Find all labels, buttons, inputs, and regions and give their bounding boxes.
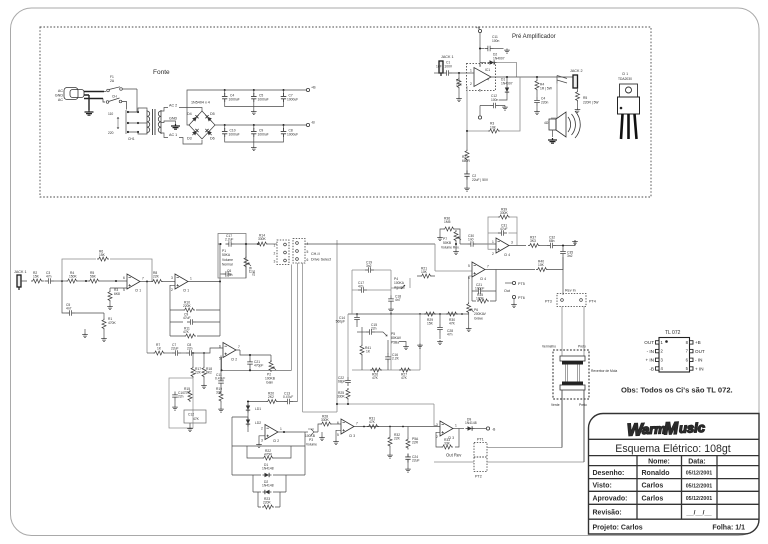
small box C/47K [184,410,206,423]
svg-text:PT2: PT2 [475,475,482,479]
svg-text:3K3: 3K3 [530,239,536,243]
resistor R3 (feedback) [467,86,488,131]
svg-text:7: 7 [356,422,358,426]
svg-text:22n: 22n [178,395,184,399]
pot P1 [244,256,251,268]
tone box wires [352,270,420,370]
wire pin3 ground [259,436,265,443]
junction dots tone [356,313,463,315]
svg-text:3: 3 [261,439,263,443]
svg-text:Visto:: Visto: [593,483,612,490]
resistor R27 [399,368,411,372]
svg-text:CI 1: CI 1 [183,289,189,293]
svg-text:Aprovado:: Aprovado: [593,496,628,503]
svg-text:10K: 10K [421,270,428,274]
capacitor C10 1000uF [224,125,226,129]
capacitor C22 [345,377,351,386]
svg-text:Esquema Elétrico: 108gt: Esquema Elétrico: 108gt [615,443,730,455]
svg-text:22uF: 22uF [171,347,179,351]
transformer core [153,109,156,135]
svg-text:__/__/__: __/__/__ [685,509,712,516]
tank dashed box [553,350,589,399]
svg-text:47K: 47K [449,322,456,326]
resistor R10 [183,308,195,312]
clip loop outer [232,432,305,475]
svg-text:3K2: 3K2 [252,270,256,276]
svg-text:100KA: 100KA [394,281,405,285]
capacitor C7 [172,350,181,356]
wire connector b drops [298,263,303,412]
resistor R28 [320,422,332,426]
transformer leads secondary [161,108,168,138]
capacitor C6 [221,273,223,275]
svg-text:330K: 330K [500,211,509,215]
svg-text:CI 2: CI 2 [231,358,237,362]
junction dot [455,243,457,245]
svg-text:330K: 330K [258,237,267,241]
pin names right [695,340,705,371]
svg-text:5: 5 [337,433,339,437]
capacitor C32 [547,243,556,249]
svg-text:22R: 22R [412,441,419,445]
svg-text:LD1: LD1 [255,407,261,411]
wire to node [556,240,575,248]
resistor R14 [256,242,268,246]
svg-text:- IN: - IN [647,349,654,354]
svg-text:47K: 47K [193,417,200,421]
svg-text:D6: D6 [210,137,215,141]
op-amp CI2b [265,425,278,440]
svg-text:470K: 470K [108,321,117,325]
pin stubs right [690,341,694,370]
svg-text:22n: 22n [187,347,193,351]
resistor R17 [192,353,194,366]
ground (tone box right edge) [417,344,423,349]
terminal +B [306,88,309,91]
svg-text:3: 3 [436,423,438,427]
pot P7 [454,230,461,242]
line under header [589,465,760,467]
op-amp CI preamp [474,68,491,87]
capacitor C9 [187,319,196,325]
jack J1 main input [17,275,21,290]
pot P4 arrow [401,285,405,289]
svg-text:IC1: IC1 [485,68,490,72]
svg-text:3n2: 3n2 [567,254,573,258]
terminal -B (output) [486,427,489,430]
svg-text:Verde: Verde [551,403,560,407]
ground (R1) [101,337,107,342]
switch CH [103,98,127,110]
resistor R8 [151,280,163,284]
op-amp CI3a [341,419,354,434]
svg-text:15K: 15K [427,322,434,326]
wire drive out [305,243,435,245]
svg-text:Gain: Gain [266,381,273,385]
svg-text:usic: usic [679,420,706,436]
svg-text:P3: P3 [309,438,313,442]
svg-text:8K2: 8K2 [206,371,212,375]
svg-text:3: 3 [511,241,513,245]
svg-text:3: 3 [479,64,481,68]
capacitor C3 [45,278,54,284]
wire output net [491,77,573,100]
svg-text:7: 7 [238,345,240,349]
junction dot [219,280,221,282]
svg-text:110: 110 [108,112,113,116]
svg-text:220K: 220K [183,304,192,308]
capacitor C15 [357,331,366,333]
TDA2030 body [618,97,640,114]
svg-text:CH1: CH1 [128,137,135,141]
capacitor C31 [498,230,507,236]
junction dots P1 wire [219,243,259,245]
svg-text:05/12/2001: 05/12/2001 [686,496,713,502]
ground (secondary center tap) [171,124,180,129]
resistor R33 [441,445,453,449]
svg-text:6: 6 [123,276,125,280]
ground (bottom cap bank) [251,146,257,151]
svg-text:CI 4: CI 4 [504,253,510,257]
terminal +B (preamp supply) [478,29,481,32]
op-amp CI1b [175,274,188,289]
op-amp CI1a [127,274,140,289]
capacitor C17 [226,241,235,247]
mains plug CN1 [64,88,84,100]
svg-text:680R: 680R [462,159,471,163]
resistor P5A [407,427,409,438]
op-amp CI2a [223,343,236,358]
wire tone top run [348,313,469,315]
svg-text:D3: D3 [187,137,192,141]
svg-text:Data:: Data: [688,459,706,466]
svg-text:2.2K: 2.2K [392,357,400,361]
feedback loop wire [62,259,152,282]
junction dot [85,280,87,282]
svg-text:3: 3 [171,276,173,280]
svg-text:5: 5 [123,288,125,292]
diode D1 [263,473,272,477]
svg-text:Fonte: Fonte [153,69,170,76]
resistor R4 (zobel) [536,77,538,79]
ground (C11) [504,49,510,54]
svg-text:2K2: 2K2 [268,395,274,399]
svg-text:Desenho:: Desenho: [593,470,625,477]
capacitor C11 [480,48,484,50]
wire to CI1b [163,281,175,283]
svg-text:1: 1 [280,427,282,431]
wire output node [140,281,151,283]
dashed enclosure box (Fonte + Pre Amplificador) [40,27,651,197]
capacitor C19t [365,267,374,273]
svg-text:Volume Rev.: Volume Rev. [441,246,460,250]
row line 1 [589,478,760,480]
column line 3 [716,456,718,520]
svg-text:22uF | 50V: 22uF | 50V [472,178,489,182]
transformer leads primary [144,108,147,134]
resistor R18 [203,353,205,366]
tank input transducer [560,356,585,361]
svg-text:68n: 68n [549,239,555,243]
diode D2 [263,490,272,494]
svg-text:100n: 100n [491,98,499,102]
ground (R32) [387,454,393,459]
svg-text:Ronaldo: Ronaldo [642,470,670,477]
svg-text:1N5404 x 4: 1N5404 x 4 [191,101,210,105]
svg-text:1N4148: 1N4148 [262,467,274,471]
resistor R23 [262,505,274,509]
svg-text:47K: 47K [401,376,408,380]
wire [54,280,66,282]
ground (R1) [456,97,462,102]
svg-text:50KA: 50KA [222,253,231,257]
svg-text:Obs: Todos os Ci's são TL 072.: Obs: Todos os Ci's são TL 072. [621,386,733,395]
svg-text:M: M [664,419,680,439]
svg-text:6K8: 6K8 [114,292,120,296]
svg-text:CH: CH [112,95,117,99]
PREAMP SECTION [434,26,640,191]
ground (P6) [466,327,472,332]
svg-text:Out Rev: Out Rev [446,453,462,458]
svg-text:PT3: PT3 [545,300,552,304]
resistor R40 [536,268,548,272]
svg-text:1uF / 100V: 1uF / 100V [436,65,453,69]
pins connector a [284,243,287,246]
resistor R26 [370,368,382,372]
capacitor C9 1000uF [253,125,255,129]
C22/R330K stack [337,314,437,426]
wire out rev feed [434,432,474,462]
svg-text:1: 1 [455,424,457,428]
svg-text:R12: R12 [248,267,252,273]
wire CI4b out [485,269,535,271]
TL072 PINOUT [621,330,733,395]
svg-text:05/12/2001: 05/12/2001 [686,471,713,477]
svg-text:Out: Out [504,289,510,293]
svg-text:D4: D4 [187,112,192,116]
svg-text:+ IN: + IN [645,358,654,363]
connector CH-II a (dashed) [277,240,289,265]
tank output transducer [562,382,583,386]
resistor R1 [103,313,105,318]
column line 2 [681,456,683,520]
pot P5 arrow [383,332,387,336]
wire [475,428,487,430]
pins Rev In [561,299,564,302]
svg-text:PT4: PT4 [589,300,596,304]
svg-text:CI 1: CI 1 [622,72,628,76]
svg-text:AC 1: AC 1 [169,133,177,137]
LED rail [247,402,249,433]
wire out rev to tank [448,447,584,462]
svg-text:220R | 5W: 220R | 5W [583,101,599,105]
capacitor C5 [66,310,75,316]
svg-text:CH-II: CH-II [311,252,320,256]
op-amp CI3b [440,421,453,436]
svg-text:47K: 47K [369,420,376,424]
capacitor C17t [358,287,367,293]
ground (R5) [575,108,581,113]
tank springs [566,365,580,383]
wire [181,352,186,354]
resistor R7 [153,351,165,355]
pin1 mark [665,340,668,343]
svg-text:560pF: 560pF [336,320,345,324]
capacitor C8 [186,350,195,356]
TDA2030 legs [621,114,637,139]
svg-text:80KAV: 80KAV [391,336,402,340]
svg-text:6: 6 [468,276,470,280]
ground (P7) [453,250,459,255]
svg-text:Carlos: Carlos [642,483,664,490]
svg-text:1N4148: 1N4148 [465,421,477,425]
wire R3 to opamp [110,287,127,289]
svg-text:GND: GND [169,117,178,121]
svg-text:15K: 15K [33,275,40,279]
svg-text:7: 7 [142,277,144,281]
svg-text:+B: +B [311,86,316,90]
svg-text:PT1: PT1 [477,438,484,442]
wire center tap [168,121,176,124]
resistor R5 [577,88,579,90]
svg-text:47n: 47n [358,285,364,289]
capacitor C21b [247,359,253,368]
op-amp CI4b [472,262,485,277]
svg-text:7: 7 [487,265,489,269]
bridge diode D3 [191,127,200,136]
wire input run [21,280,27,282]
svg-text:D5: D5 [210,112,215,116]
capacitor C21 [475,288,484,294]
resistor R21 [420,274,432,278]
resistor R36 [443,227,455,231]
svg-text:2: 2 [274,252,276,256]
wire drop to lower stage [146,282,148,354]
ground (C2) [464,187,470,192]
ground (C18) [388,308,394,313]
wire CI2b out [278,431,302,433]
selector arrow [117,117,119,129]
wire [75,312,104,314]
row line 2 [589,490,760,492]
voltage selector pins [127,111,139,133]
capacitor C28 [439,314,441,324]
wire left rail [232,417,248,446]
junction dot [562,244,564,246]
ground (R18) [201,384,207,389]
svg-text:2.2uF: 2.2uF [225,238,233,242]
capacitor C14 [354,314,360,323]
resistor R1 [458,73,460,77]
svg-text:47n: 47n [46,275,52,279]
diode D9 [466,426,475,430]
svg-text:arm: arm [642,421,667,437]
svg-text:68pF: 68pF [338,380,346,384]
resistor R22 [262,456,274,460]
capacitor C1 [443,70,452,76]
resistor R2 [31,279,43,283]
wire routing loop left [292,265,338,413]
diode D2 [480,62,486,64]
resistor R32 [389,427,391,436]
pin numbers left [661,340,664,371]
svg-text:220: 220 [108,131,114,135]
junction dot [283,431,285,433]
ground (C4) [534,110,540,115]
wire CI4a input [460,243,496,245]
wire pin5 ground [336,430,341,440]
connector Rev In (dashed) [557,294,586,307]
svg-text:-B: -B [311,121,315,125]
ground (mains earth) [85,110,94,115]
capacitor C11b [220,356,222,379]
resistor R4 [66,279,78,283]
svg-text:3: 3 [274,260,276,264]
resistor R19 [220,387,222,391]
svg-text:05/12/2001: 05/12/2001 [686,483,713,489]
svg-text:1: 1 [190,277,192,281]
row line 3 [589,503,760,505]
svg-text:Normal: Normal [222,263,233,267]
capacitor C30 [468,241,477,247]
svg-text:PT6: PT6 [518,296,525,300]
row line 4 [589,518,760,520]
svg-text:1000uF: 1000uF [287,98,298,102]
resistor R25 [346,388,350,400]
wire [43,280,45,282]
wire [78,280,88,282]
connector PT1 (dashed) [474,443,487,458]
svg-text:330K: 330K [321,418,330,422]
svg-text:5: 5 [479,89,481,93]
column line 1 [636,456,638,520]
svg-text:200KAV: 200KAV [474,312,487,316]
pins connector b [296,242,299,245]
clip loop inner [258,492,280,507]
resistor R11 [184,334,196,338]
svg-text:1: 1 [274,244,276,248]
resistor R29 [424,312,436,316]
svg-text:JACK 2: JACK 2 [570,69,583,73]
svg-text:1N4007: 1N4007 [493,57,505,61]
bridge diode D5 [204,113,213,122]
ground (C12) [502,106,508,111]
pin numbers right [686,340,689,371]
junction dots stack bottom [336,403,349,405]
wire joining top caps [225,102,284,110]
bridge diode D4 [191,113,200,122]
diode D1 [505,86,509,95]
wire [165,352,172,354]
svg-text:0.47uF: 0.47uF [283,395,293,399]
svg-text:AC 2: AC 2 [169,104,177,108]
capacitor C24 [405,454,411,463]
wire jack to C1 [434,72,443,74]
svg-text:1: 1 [470,69,472,73]
svg-text:10K: 10K [538,263,545,267]
capacitor C10 [172,392,178,401]
connector PT6 [512,295,515,298]
svg-text:OUT: OUT [644,340,654,345]
svg-text:CI 3: CI 3 [349,434,355,438]
svg-text:CI 4: CI 4 [480,277,486,281]
wire GND drop [88,95,90,110]
pin names left [644,340,654,371]
svg-text:33K: 33K [216,391,223,395]
line under title [589,455,760,457]
jack 2 contacts [557,76,567,84]
wire from drive select run into CI4 [435,244,472,302]
